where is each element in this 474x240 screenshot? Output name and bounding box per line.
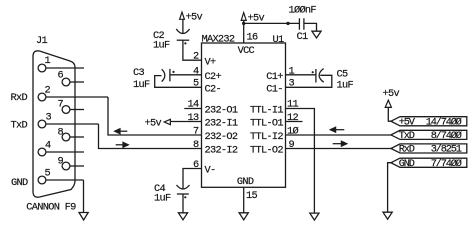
svg-text:1uF: 1uF bbox=[337, 80, 354, 92]
svg-text:4: 4 bbox=[193, 65, 199, 77]
svg-text:+5v: +5v bbox=[186, 11, 203, 23]
svg-text:15: 15 bbox=[246, 190, 257, 202]
svg-text:1: 1 bbox=[45, 55, 51, 67]
svg-text:J1: J1 bbox=[36, 35, 47, 47]
svg-text:RxD: RxD bbox=[11, 92, 28, 104]
svg-text:+5v: +5v bbox=[145, 117, 162, 129]
svg-text:C2+: C2+ bbox=[205, 71, 222, 83]
svg-text:1uF: 1uF bbox=[154, 192, 171, 204]
svg-text:16: 16 bbox=[247, 32, 258, 44]
svg-text:TTL-I2: TTL-I2 bbox=[250, 131, 283, 143]
svg-text:C3: C3 bbox=[133, 67, 144, 79]
svg-text:3/8251: 3/8251 bbox=[431, 144, 462, 156]
svg-text:TTL-I1: TTL-I1 bbox=[250, 105, 283, 117]
svg-text:232-I1: 232-I1 bbox=[205, 118, 238, 130]
svg-text:6: 6 bbox=[193, 159, 199, 171]
svg-text:+5v: +5v bbox=[248, 12, 265, 24]
svg-text:14/74ØØ: 14/74ØØ bbox=[426, 116, 462, 128]
svg-text:VCC: VCC bbox=[238, 45, 255, 57]
svg-text:TxD: TxD bbox=[399, 130, 415, 142]
svg-text:4: 4 bbox=[45, 140, 51, 152]
svg-text:5: 5 bbox=[45, 168, 51, 180]
svg-text:232-I2: 232-I2 bbox=[205, 145, 238, 157]
svg-text:C5: C5 bbox=[337, 68, 348, 80]
svg-text:GND: GND bbox=[11, 177, 28, 189]
svg-text:C1-: C1- bbox=[266, 84, 282, 96]
svg-text:1uF: 1uF bbox=[153, 40, 170, 52]
svg-text:7: 7 bbox=[193, 125, 199, 137]
svg-text:TxD: TxD bbox=[11, 120, 28, 132]
svg-text:1ØØnF: 1ØØnF bbox=[289, 5, 317, 17]
svg-text:C2-: C2- bbox=[205, 84, 221, 96]
svg-text:8: 8 bbox=[193, 139, 199, 151]
svg-text:+5V: +5V bbox=[399, 116, 416, 128]
svg-text:C1: C1 bbox=[297, 31, 308, 43]
svg-text:TTL-O1: TTL-O1 bbox=[250, 118, 283, 130]
svg-text:7/74ØØ: 7/74ØØ bbox=[431, 158, 462, 170]
svg-text:232-O1: 232-O1 bbox=[205, 105, 238, 117]
svg-text:8/74ØØ: 8/74ØØ bbox=[431, 130, 462, 142]
svg-text:RxD: RxD bbox=[399, 144, 415, 156]
svg-text:6: 6 bbox=[58, 70, 64, 82]
svg-text:8: 8 bbox=[58, 127, 64, 139]
svg-text:V-: V- bbox=[205, 165, 216, 177]
svg-text:TTL-O2: TTL-O2 bbox=[250, 145, 283, 157]
svg-text:GND: GND bbox=[237, 176, 254, 188]
svg-text:GND: GND bbox=[399, 158, 415, 170]
svg-text:V+: V+ bbox=[205, 56, 216, 68]
svg-text:7: 7 bbox=[58, 99, 64, 111]
svg-text:3: 3 bbox=[46, 112, 52, 124]
svg-text:2: 2 bbox=[45, 85, 51, 97]
svg-text:9: 9 bbox=[58, 156, 64, 168]
svg-text:+5v: +5v bbox=[383, 88, 400, 100]
svg-text:1: 1 bbox=[289, 65, 295, 77]
svg-text:12: 12 bbox=[287, 112, 298, 124]
svg-text:CANNON F9: CANNON F9 bbox=[26, 201, 76, 213]
svg-text:1uF: 1uF bbox=[133, 79, 150, 91]
svg-text:C1+: C1+ bbox=[266, 71, 283, 83]
svg-text:232-O2: 232-O2 bbox=[205, 131, 238, 143]
svg-text:MAX232: MAX232 bbox=[202, 34, 235, 46]
svg-text:U1: U1 bbox=[273, 34, 284, 46]
svg-text:13: 13 bbox=[188, 112, 199, 124]
